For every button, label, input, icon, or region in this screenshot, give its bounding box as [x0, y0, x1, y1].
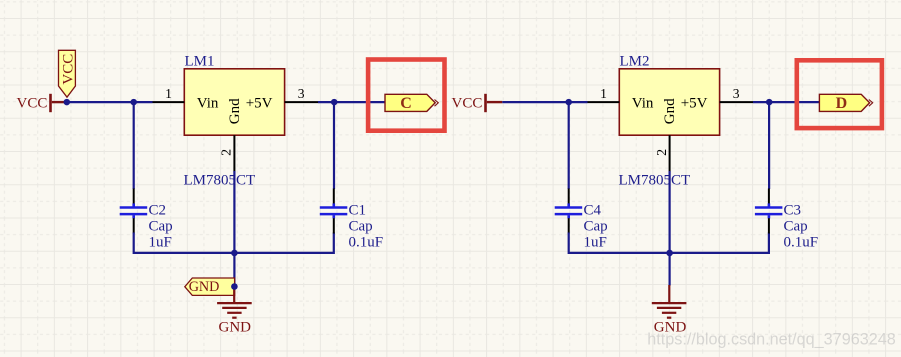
svg-text:1: 1: [600, 86, 607, 101]
power port VCC (right): [452, 94, 503, 112]
ground symbol (left): [217, 289, 252, 336]
svg-text:LM2: LM2: [620, 54, 650, 70]
svg-text:1uF: 1uF: [149, 234, 172, 250]
svg-text:1: 1: [165, 86, 172, 101]
red markup box around port C: [368, 60, 444, 131]
red markup box around port D: [797, 60, 882, 128]
wire down to C2: [133, 102, 135, 189]
component LM2: [619, 54, 719, 136]
capacitor C1: [320, 189, 383, 251]
svg-text:VCC: VCC: [60, 54, 76, 85]
junction at rail (right): [666, 250, 673, 257]
capacitor C4: [555, 189, 608, 251]
junction at rail: [231, 250, 238, 257]
port C: [385, 94, 438, 112]
wire down to C3: [768, 102, 770, 189]
wire C4 to rail (right): [569, 233, 769, 253]
svg-text:GND: GND: [219, 320, 252, 336]
svg-text:2: 2: [655, 149, 670, 156]
junction at C4 tap: [565, 99, 572, 106]
wire C2 to rail: [134, 233, 334, 253]
svg-text:3: 3: [298, 86, 305, 101]
wire pin2 to rail: [233, 171, 235, 253]
wire pin2 to rail (right): [668, 171, 670, 253]
svg-text:LM7805CT: LM7805CT: [619, 173, 691, 189]
capacitor C3: [755, 189, 818, 251]
junction at C1 tap: [331, 99, 338, 106]
svg-text:Cap: Cap: [349, 218, 373, 234]
svg-text:Gnd: Gnd: [662, 98, 678, 124]
svg-text:https://blog.csdn.net/qq_37963: https://blog.csdn.net/qq_37963248: [647, 331, 895, 349]
pin 3 LM2: [720, 86, 753, 102]
svg-text:0.1uF: 0.1uF: [349, 234, 384, 250]
wire rail to ground (right): [668, 253, 670, 286]
svg-text:GND: GND: [189, 279, 220, 295]
VCC flag: [59, 50, 77, 97]
pin 1 LM2: [588, 86, 620, 102]
power port VCC (left): [17, 94, 68, 112]
svg-text:2: 2: [220, 149, 235, 156]
svg-text:0.1uF: 0.1uF: [784, 234, 819, 250]
GND flag: [185, 278, 235, 295]
wire VCC to pin1 (right): [502, 101, 587, 103]
pin 2 LM1: [220, 135, 235, 171]
svg-text:3: 3: [733, 86, 740, 101]
svg-text:Cap: Cap: [584, 218, 608, 234]
svg-text:LM7805CT: LM7805CT: [184, 173, 256, 189]
component LM1: [184, 54, 284, 136]
svg-text:Cap: Cap: [149, 218, 173, 234]
pin 2 LM2: [655, 135, 670, 171]
junction at C3 tap: [766, 99, 773, 106]
pin 3 LM1: [285, 86, 318, 102]
wire down to C1: [333, 102, 335, 189]
svg-text:C2: C2: [149, 202, 167, 218]
wire VCC to pin1: [67, 101, 153, 103]
svg-text:LM1: LM1: [185, 54, 215, 70]
wire rail to GND flag: [233, 253, 235, 287]
svg-text:D: D: [836, 95, 848, 112]
wire pin3 to port C: [318, 101, 385, 103]
port D: [819, 94, 872, 112]
svg-text:C4: C4: [584, 202, 602, 218]
svg-text:+5V: +5V: [681, 96, 708, 112]
junction at GND flag: [231, 283, 238, 290]
svg-text:+5V: +5V: [246, 96, 273, 112]
svg-text:Vin: Vin: [197, 96, 219, 112]
svg-text:Vin: Vin: [632, 96, 654, 112]
pin 1 LM1: [153, 86, 185, 102]
svg-text:C1: C1: [349, 202, 367, 218]
junction at VCC flag: [64, 99, 71, 106]
svg-text:VCC: VCC: [17, 96, 48, 112]
svg-text:C3: C3: [784, 202, 802, 218]
ground symbol (right): [652, 285, 687, 336]
junction at C2 tap: [130, 99, 137, 106]
svg-text:Gnd: Gnd: [227, 98, 243, 124]
wire pin3 to port D: [753, 101, 819, 103]
svg-text:C: C: [400, 95, 412, 112]
svg-text:1uF: 1uF: [584, 234, 607, 250]
svg-text:Cap: Cap: [784, 218, 808, 234]
svg-text:VCC: VCC: [452, 96, 483, 112]
wire down to C4: [568, 102, 570, 189]
capacitor C2: [120, 189, 173, 251]
